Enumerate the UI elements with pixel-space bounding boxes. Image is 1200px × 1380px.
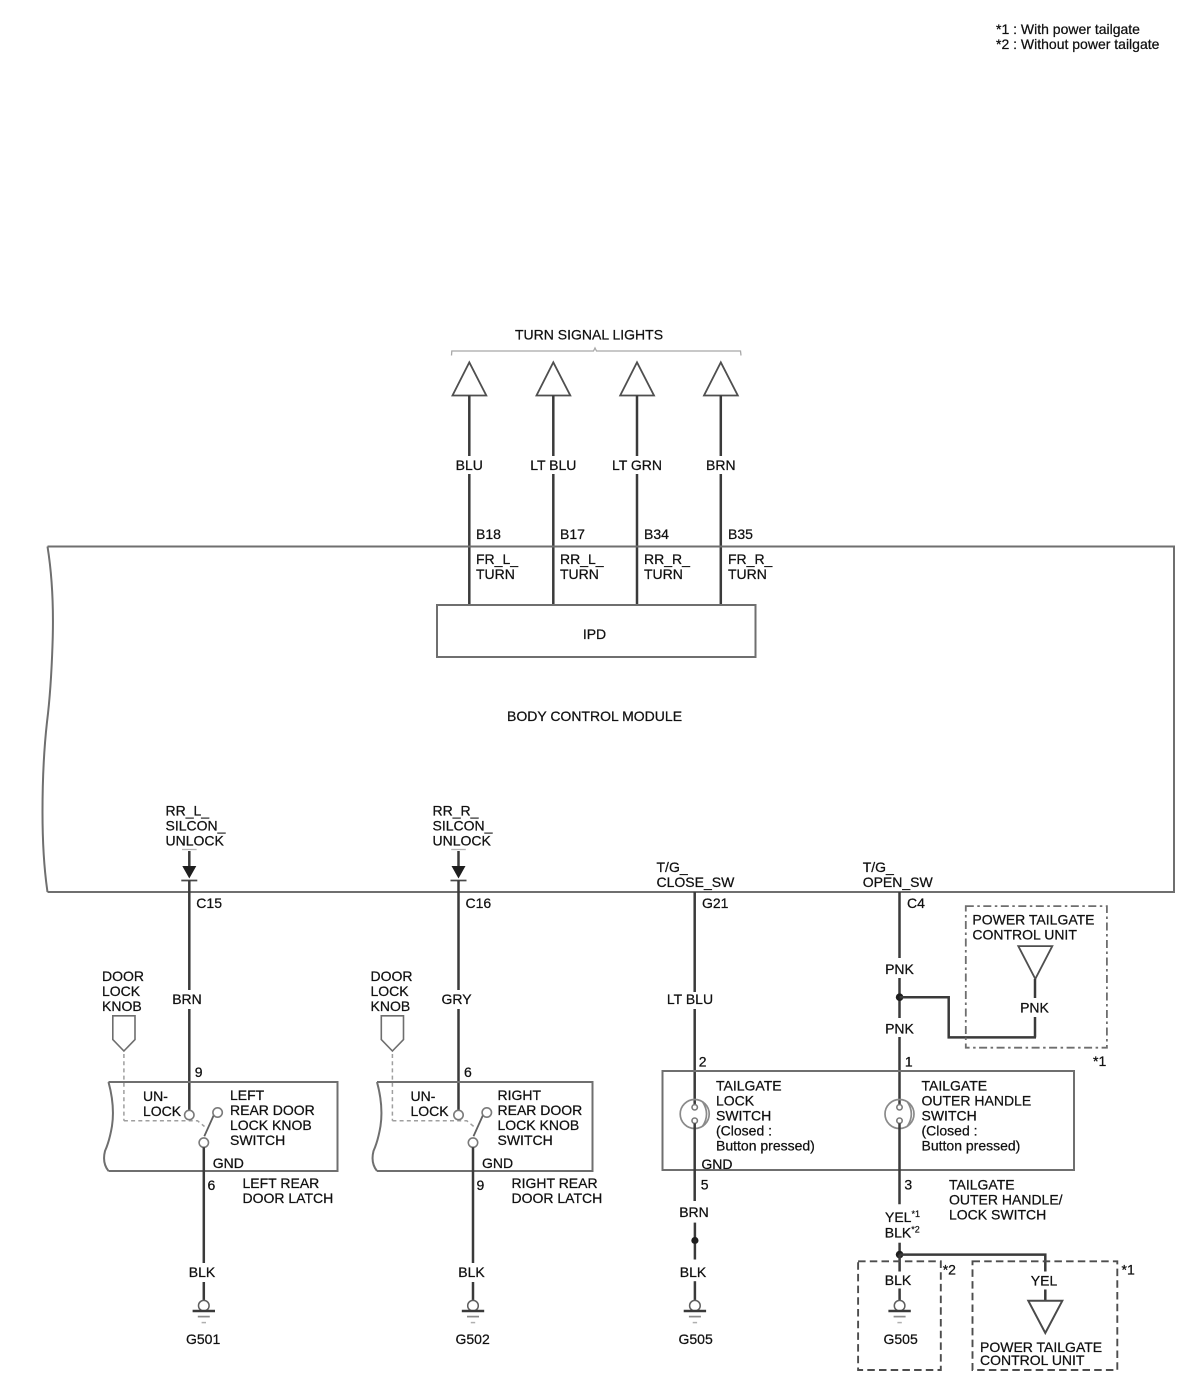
wire PNK mid	[898, 978, 901, 1018]
svg-text:GND: GND	[701, 1156, 732, 1172]
svg-text:SWITCH: SWITCH	[498, 1132, 553, 1148]
IPD block	[437, 605, 756, 657]
svg-text:G502: G502	[456, 1331, 490, 1347]
lamp triangle FR_R	[704, 362, 738, 395]
wire BRN B35 lower	[720, 474, 723, 605]
svg-text:GND: GND	[213, 1155, 244, 1171]
svg-text:LOCK KNOB: LOCK KNOB	[230, 1117, 312, 1133]
wire BRN from C15	[188, 892, 191, 990]
svg-text:6: 6	[208, 1177, 216, 1193]
wire branch to power tailgate unit	[900, 997, 1036, 1037]
ground G505 symbol box	[888, 1300, 910, 1322]
wire LT BLU from G21	[693, 892, 696, 992]
dashed box *1 bottom	[973, 1261, 1118, 1370]
svg-text:RR_L_: RR_L_	[166, 803, 210, 819]
svg-text:SWITCH: SWITCH	[716, 1108, 771, 1124]
label TAILGATE LOCK SWITCH	[716, 1078, 815, 1154]
label POWER TAILGATE CONTROL UNIT top	[972, 912, 1094, 943]
svg-text:LOCK SWITCH: LOCK SWITCH	[949, 1207, 1046, 1223]
label POWER TAILGATE CONTROL UNIT bottom	[980, 1339, 1102, 1368]
svg-text:(Closed :: (Closed :	[716, 1123, 772, 1139]
dashed box *2	[858, 1261, 941, 1370]
label DOOR LOCK KNOB left	[102, 968, 144, 1014]
svg-text:GND: GND	[482, 1155, 513, 1171]
svg-text:3: 3	[904, 1177, 912, 1193]
wire below junction right	[898, 1255, 901, 1272]
svg-text:SWITCH: SWITCH	[922, 1108, 977, 1124]
connector triangle top unit	[1018, 946, 1052, 979]
svg-text:OUTER HANDLE/: OUTER HANDLE/	[949, 1192, 1063, 1208]
svg-text:YEL: YEL	[1031, 1273, 1058, 1289]
wire triangle tail upper	[1034, 979, 1037, 998]
svg-text:C16: C16	[466, 895, 492, 911]
wire GRY from C16	[457, 892, 460, 990]
node junction mid	[691, 1237, 698, 1244]
wire BLK box lower	[898, 1289, 901, 1302]
svg-text:T/G_: T/G_	[657, 859, 688, 875]
svg-text:KNOB: KNOB	[102, 998, 142, 1014]
svg-text:G505: G505	[679, 1331, 713, 1347]
dashed link knob left vertical	[123, 1054, 125, 1121]
lamp triangle FR_L	[453, 362, 487, 395]
wire BLU B18 upper	[468, 396, 471, 457]
left rear door latch box	[104, 1082, 337, 1171]
lamp triangle RR_R	[620, 362, 654, 395]
svg-text:CONTROL UNIT: CONTROL UNIT	[980, 1352, 1085, 1368]
svg-text:TURN: TURN	[476, 566, 515, 582]
svg-text:BRN: BRN	[706, 457, 736, 473]
wire LT BLU B17 lower	[552, 474, 555, 605]
svg-text:TAILGATE: TAILGATE	[949, 1177, 1015, 1193]
knob symbol right	[381, 1016, 403, 1051]
svg-text:OPEN_SW: OPEN_SW	[863, 874, 934, 890]
wire YEL to triangle	[1044, 1290, 1047, 1301]
left knob switch	[185, 1108, 223, 1148]
svg-text:BRN: BRN	[679, 1204, 709, 1220]
svg-text:LT BLU: LT BLU	[667, 991, 713, 1007]
label DOOR LOCK KNOB right	[371, 968, 413, 1014]
tailgate lock switch symbol	[680, 1100, 709, 1129]
svg-text:*1: *1	[1093, 1053, 1106, 1069]
svg-text:BLK: BLK	[885, 1272, 912, 1288]
net label RR_R_SILCON_UNLOCK	[433, 803, 493, 849]
power tailgate control unit box (top)	[966, 906, 1107, 1048]
wire BRN to junction	[694, 1223, 697, 1237]
svg-text:UN-: UN-	[143, 1088, 168, 1104]
net label T/G_CLOSE_SW	[657, 859, 736, 890]
svg-text:UN-: UN-	[411, 1088, 436, 1104]
svg-text:TURN: TURN	[728, 566, 767, 582]
body control module outline	[43, 547, 1175, 893]
svg-text:LOCK KNOB: LOCK KNOB	[498, 1117, 580, 1133]
wire LT BLU to switch	[693, 1009, 696, 1105]
svg-text:*1: *1	[1122, 1262, 1135, 1278]
svg-text:SILCON_: SILCON_	[433, 818, 493, 834]
svg-text:KNOB: KNOB	[371, 998, 411, 1014]
svg-text:TURN: TURN	[560, 566, 599, 582]
svg-text:TAILGATE: TAILGATE	[716, 1078, 782, 1094]
svg-text:RIGHT: RIGHT	[498, 1087, 542, 1103]
connector triangle bottom unit	[1028, 1301, 1062, 1333]
svg-text:IPD: IPD	[583, 626, 606, 642]
svg-text:9: 9	[195, 1064, 203, 1080]
svg-text:G21: G21	[702, 895, 729, 911]
svg-text:LOCK: LOCK	[716, 1093, 755, 1109]
svg-text:PNK: PNK	[885, 961, 914, 977]
wire GRY to switch	[457, 1009, 460, 1110]
wire triangle tail lower	[1034, 1017, 1037, 1037]
knob symbol left	[113, 1016, 135, 1051]
svg-text:RIGHT REAR: RIGHT REAR	[512, 1175, 598, 1191]
net label T/G_OPEN_SW	[863, 859, 934, 890]
svg-text:UNLOCK: UNLOCK	[166, 833, 225, 849]
svg-text:DOOR LATCH: DOOR LATCH	[512, 1190, 603, 1206]
wire to junction right	[898, 1243, 901, 1251]
svg-text:FR_R_: FR_R_	[728, 551, 773, 567]
svg-text:6: 6	[464, 1064, 472, 1080]
wire left switch to ground upper	[203, 1147, 206, 1263]
wire LT GRN B34 upper	[636, 396, 639, 457]
svg-text:POWER TAILGATE: POWER TAILGATE	[972, 912, 1094, 928]
svg-text:OUTER HANDLE: OUTER HANDLE	[922, 1093, 1032, 1109]
svg-text:LOCK: LOCK	[143, 1103, 182, 1119]
wire PNK from C4	[898, 892, 901, 958]
svg-text:CONTROL UNIT: CONTROL UNIT	[972, 926, 1077, 942]
svg-text:BLK: BLK	[458, 1264, 485, 1280]
svg-text:UNLOCK: UNLOCK	[433, 833, 492, 849]
wire below junction mid	[694, 1244, 697, 1260]
label RIGHT REAR DOOR LOCK KNOB SWITCH	[498, 1087, 583, 1148]
svg-text:RR_R_: RR_R_	[433, 803, 479, 819]
svg-text:B35: B35	[728, 526, 753, 542]
svg-text:1: 1	[905, 1054, 913, 1070]
label UN-LOCK right	[411, 1088, 450, 1119]
wire BRN B35 upper	[720, 396, 723, 457]
svg-text:*2: *2	[943, 1262, 956, 1278]
svg-text:TURN SIGNAL LIGHTS: TURN SIGNAL LIGHTS	[515, 327, 663, 343]
svg-text:B17: B17	[560, 526, 585, 542]
svg-text:SWITCH: SWITCH	[230, 1132, 285, 1148]
svg-text:*2 : Without power tailgate: *2 : Without power tailgate	[996, 36, 1160, 52]
svg-text:LT GRN: LT GRN	[612, 457, 662, 473]
svg-text:PNK: PNK	[885, 1021, 914, 1037]
svg-text:B18: B18	[476, 526, 501, 542]
svg-text:BODY CONTROL MODULE: BODY CONTROL MODULE	[507, 708, 682, 724]
svg-text:Button pressed): Button pressed)	[922, 1138, 1021, 1154]
label UN-LOCK left	[143, 1088, 182, 1119]
svg-text:CLOSE_SW: CLOSE_SW	[657, 874, 736, 890]
dashed link knob right vertical	[391, 1054, 393, 1121]
net label RR_L_SILCON_UNLOCK	[166, 803, 226, 849]
svg-text:LOCK: LOCK	[102, 983, 141, 999]
svg-text:*1 : With power tailgate: *1 : With power tailgate	[996, 21, 1140, 37]
svg-text:DOOR: DOOR	[102, 968, 144, 984]
svg-text:SILCON_: SILCON_	[166, 818, 226, 834]
svg-text:C4: C4	[907, 895, 925, 911]
output arrow C15	[181, 850, 197, 893]
wire left BLK lower	[203, 1282, 206, 1301]
svg-text:BLU: BLU	[456, 457, 483, 473]
svg-text:GRY: GRY	[441, 991, 472, 1007]
svg-text:TURN: TURN	[644, 566, 683, 582]
right rear door latch box	[373, 1082, 593, 1171]
dashed link knob left horizontal	[124, 1121, 205, 1127]
svg-text:BLK: BLK	[680, 1264, 707, 1280]
ground G502 symbol	[462, 1300, 484, 1322]
tailgate outer handle switch symbol	[885, 1100, 914, 1129]
svg-text:LOCK: LOCK	[371, 983, 410, 999]
svg-text:Button pressed): Button pressed)	[716, 1138, 815, 1154]
wire LT BLU B17 upper	[552, 396, 555, 457]
wire BLK mid lower	[694, 1281, 697, 1301]
label TAILGATE OUTER HANDLE SWITCH	[922, 1078, 1032, 1154]
svg-text:5: 5	[701, 1177, 709, 1193]
svg-text:9: 9	[477, 1177, 485, 1193]
label RIGHT REAR DOOR LATCH	[512, 1175, 603, 1206]
svg-text:RR_R_: RR_R_	[644, 551, 690, 567]
svg-text:REAR DOOR: REAR DOOR	[498, 1102, 583, 1118]
svg-text:G505: G505	[884, 1331, 918, 1347]
svg-text:DOOR: DOOR	[371, 968, 413, 984]
svg-text:LEFT: LEFT	[230, 1087, 265, 1103]
svg-text:C15: C15	[196, 895, 222, 911]
node junction C4 branch	[896, 993, 904, 1001]
wire BRN to switch	[188, 1009, 191, 1110]
svg-text:LOCK: LOCK	[411, 1103, 450, 1119]
node junction right	[896, 1251, 904, 1259]
label LEFT REAR DOOR LATCH	[243, 1175, 334, 1206]
lamp triangle RR_L	[537, 362, 571, 395]
ground G501 symbol	[193, 1300, 215, 1322]
svg-text:G501: G501	[186, 1331, 220, 1347]
tailgate switch box	[663, 1071, 1075, 1170]
dashed link knob right horizontal	[392, 1121, 473, 1127]
wire right switch to ground upper	[472, 1147, 475, 1263]
svg-text:LEFT REAR: LEFT REAR	[243, 1175, 320, 1191]
wire from tailgate lock switch	[693, 1123, 696, 1201]
svg-text:BLK: BLK	[189, 1264, 216, 1280]
wire from tailgate outer handle switch	[898, 1123, 901, 1204]
svg-text:LT BLU: LT BLU	[530, 457, 576, 473]
svg-text:(Closed :: (Closed :	[922, 1123, 978, 1139]
svg-text:B34: B34	[644, 526, 669, 542]
label LEFT REAR DOOR LOCK KNOB SWITCH	[230, 1087, 315, 1148]
wire LT GRN B34 lower	[636, 474, 639, 605]
svg-text:BRN: BRN	[172, 991, 202, 1007]
bracket over turn signal lights	[452, 348, 742, 356]
output arrow C16	[451, 850, 467, 893]
svg-text:T/G_: T/G_	[863, 859, 894, 875]
label TAILGATE OUTER HANDLE/LOCK SWITCH	[949, 1177, 1063, 1223]
svg-text:RR_L_: RR_L_	[560, 551, 604, 567]
wire PNK to switch	[898, 1037, 901, 1105]
svg-text:DOOR LATCH: DOOR LATCH	[243, 1190, 334, 1206]
wire BLU B18 lower	[468, 474, 471, 605]
ground G505 symbol mid	[684, 1300, 706, 1322]
svg-text:REAR DOOR: REAR DOOR	[230, 1102, 315, 1118]
wire right BLK lower	[472, 1282, 475, 1301]
svg-text:2: 2	[699, 1054, 707, 1070]
svg-text:TAILGATE: TAILGATE	[922, 1078, 988, 1094]
svg-text:FR_L_: FR_L_	[476, 551, 518, 567]
right knob switch	[454, 1108, 492, 1148]
wire branch to YEL triangle	[900, 1255, 1046, 1272]
svg-text:PNK: PNK	[1020, 1000, 1049, 1016]
